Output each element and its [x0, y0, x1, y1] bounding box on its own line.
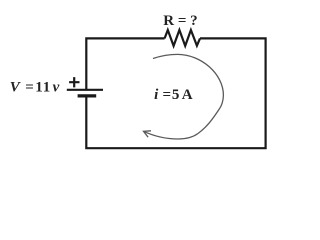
svg-text:V=11v: V=11v [10, 80, 60, 96]
battery V: positive plate (long thin) [67, 89, 103, 91]
arrowhead of current loop arrow [144, 131, 152, 137]
wire: resistor R right pin along top, down right side, along bottom to battery - terminal [86, 38, 265, 148]
current direction loop arrow (clockwise arc) [144, 54, 224, 139]
svg-text:i=5A: i=5A [154, 87, 193, 103]
battery V: negative plate (short thick) [78, 94, 97, 97]
wire: battery + terminal up left side and along top to resistor R left pin [86, 38, 164, 89]
svg-text:R = ?: R = ? [163, 13, 197, 29]
resistor R (zigzag symbol) [165, 30, 200, 46]
polarity + sign at battery positive terminal [69, 77, 79, 87]
